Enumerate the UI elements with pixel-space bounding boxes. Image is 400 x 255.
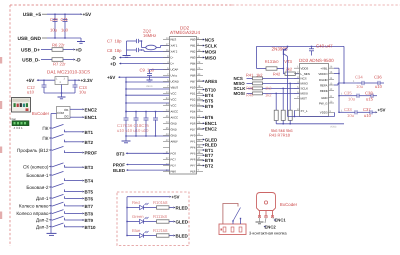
svg-text:OG: OG (64, 115, 69, 119)
wire RLED (mcu) (197, 144, 204, 146)
wire USB_GND (47, 37, 81, 38)
svg-text:BT5: BT5 (205, 99, 214, 104)
svg-text:R121k8: R121k8 (153, 228, 168, 233)
svg-text:PB5: PB5 (190, 68, 196, 72)
node SCLK (mcu) (203, 43, 218, 48)
svg-text:C34: C34 (355, 75, 363, 80)
svg-text:R38: R38 (246, 86, 254, 91)
node +D (mcu) (110, 62, 170, 67)
svg-text:PE6: PE6 (190, 170, 196, 174)
svg-text:VCC: VCC (171, 104, 177, 108)
svg-text:ENC2: ENC2 (205, 127, 218, 132)
crystal ZQ2 (141, 40, 170, 51)
wire BT5 (67, 191, 82, 193)
capacitor C8 label (107, 48, 122, 53)
svg-text:BT10: BT10 (85, 225, 97, 230)
node BT9 (82, 218, 93, 223)
svg-text:MOSI: MOSI (301, 92, 309, 96)
svg-text:C8: C8 (107, 48, 113, 53)
resistor R6 (52, 48, 63, 52)
svg-text:MOT: MOT (301, 97, 308, 101)
svg-text:ExCoder: ExCoder (32, 111, 50, 116)
svg-text:PD2: PD2 (190, 98, 196, 102)
node BLED (173, 233, 188, 238)
resistor pull-up 2 (281, 88, 285, 124)
sensor U2 DD3 ADNS-9500 (294, 64, 334, 117)
svg-text:SCLK: SCLK (301, 87, 309, 91)
wire GLED (mcu) (197, 139, 204, 141)
regulator DA1 label (47, 70, 90, 75)
resistor R6 22r label (52, 43, 65, 48)
switch BT8 (50, 210, 67, 214)
svg-text:BT9: BT9 (205, 104, 214, 109)
svg-text:REFA: REFA (320, 83, 328, 87)
wire BT1 (mcu) (197, 149, 204, 151)
svg-text:Колесо влево: Колесо влево (19, 204, 49, 209)
svg-text:Дап-3: Дап-3 (36, 224, 49, 229)
wire LED +5V rail (127, 197, 169, 236)
node USB_D- (22, 58, 52, 64)
svg-text:C38: C38 (365, 90, 373, 95)
svg-text:UCAP: UCAP (171, 68, 179, 72)
LED Green (126, 214, 156, 224)
capacitor C40 (309, 43, 333, 55)
wire BT5 (mcu) (197, 100, 204, 102)
svg-text:NCS: NCS (301, 77, 307, 81)
transistor VT3 label (272, 46, 293, 64)
svg-text:10u: 10u (347, 113, 355, 118)
wire BT9 (mcu) (197, 105, 204, 107)
node PROF (mcu) (113, 163, 170, 168)
node SCLK (sensor) (234, 86, 253, 91)
svg-text:R42: R42 (273, 72, 281, 77)
switch BT9 label (36, 218, 51, 223)
svg-text:-D: -D (76, 58, 82, 64)
svg-text:R131k0: R131k0 (265, 59, 280, 64)
switch BT6 label (36, 196, 51, 201)
svg-text:BT2: BT2 (205, 163, 214, 168)
switch BT6 (50, 194, 67, 198)
svg-text:R7 22r: R7 22r (53, 62, 66, 67)
wire ENC1 (mcu) (197, 122, 204, 124)
node BT2 (mcu) (203, 163, 214, 168)
wire encoder COM to bus (51, 114, 57, 129)
svg-text:PD7: PD7 (171, 164, 177, 168)
svg-text:ATMEGA32U4: ATMEGA32U4 (170, 30, 200, 35)
resistor pull-up 1 (274, 93, 278, 124)
switch BT10 label (36, 224, 51, 229)
svg-text:1k2: 1k2 (265, 93, 272, 98)
node RLED (173, 205, 188, 210)
svg-text:AVCC: AVCC (171, 110, 179, 114)
svg-text:+5V: +5V (378, 108, 386, 113)
resistor R7 (52, 58, 63, 62)
node BLED (mcu) (113, 168, 169, 173)
svg-text:+5V: +5V (107, 75, 116, 80)
wire MOSI (mcu) (197, 51, 204, 53)
node GLED (173, 219, 188, 224)
svg-text:R41: R41 (246, 72, 254, 77)
node -D (mcu) (111, 56, 170, 61)
wire BT6 (mcu) (197, 116, 204, 118)
node BT3 (mcu) (116, 151, 169, 156)
ExCoder block label (32, 111, 50, 116)
svg-text:GND: GND (321, 96, 327, 100)
svg-text:BT4: BT4 (85, 179, 94, 184)
svg-text:1k2: 1k2 (265, 86, 272, 91)
wire BT2 (mcu) (197, 165, 204, 167)
svg-text:UGND: UGND (171, 80, 179, 84)
node BT6 (82, 196, 93, 201)
capacitor C10 (50, 14, 58, 38)
svg-text:NCS: NCS (205, 37, 215, 42)
capacitor C35 (344, 90, 367, 101)
svg-text:ENC1: ENC1 (275, 218, 287, 223)
node ENC1 (mcu) (203, 121, 218, 126)
wire ARES (mcu) (197, 80, 204, 82)
capacitor C37 (363, 107, 375, 118)
node +5V (80, 12, 92, 18)
svg-text:PD5: PD5 (190, 116, 196, 120)
node BT1 (82, 130, 93, 135)
wire ENC2 (70, 108, 82, 110)
svg-text:VDDIO: VDDIO (318, 72, 328, 76)
svg-text:XAT2: XAT2 (171, 50, 178, 54)
svg-text:ENC2: ENC2 (265, 224, 277, 229)
node BT4 (mcu) (203, 93, 214, 98)
svg-text:GND: GND (171, 122, 177, 126)
capacitor C7 (127, 39, 142, 43)
wire switch common bus (50, 128, 52, 233)
node BT10 (mcu) (203, 87, 217, 92)
EnCoder label (280, 202, 298, 207)
svg-text:PB4: PB4 (190, 62, 196, 66)
svg-text:C37: C37 (363, 107, 371, 112)
EnCoder symbol (257, 193, 276, 218)
node MISO (sensor) (234, 81, 253, 86)
svg-text:Боковая-1: Боковая-1 (26, 173, 49, 178)
switch BT1 label (42, 126, 51, 131)
ground (switch bus) (47, 233, 57, 235)
svg-text:BLED: BLED (176, 233, 189, 238)
ground (USB) (77, 38, 85, 43)
svg-text:1k2: 1k2 (256, 72, 263, 77)
node ENC1 (encoder) (273, 218, 287, 223)
svg-text:+D: +D (110, 62, 117, 67)
capacitor C12 (27, 80, 47, 94)
wire sensor +5V rail (257, 46, 345, 83)
svg-text:PF7: PF7 (190, 164, 196, 168)
node BT8 (82, 211, 93, 216)
svg-text:PB3: PB3 (190, 56, 196, 60)
svg-text:PC7: PC7 (171, 158, 177, 162)
node -D (73, 58, 81, 64)
svg-text:PD4: PD4 (190, 110, 196, 114)
LED group box (117, 192, 189, 246)
svg-text:C10: C10 (50, 17, 58, 22)
svg-text:L_NEN: L_NEN (301, 72, 310, 76)
switch BT3 (50, 163, 67, 167)
svg-text:C11: C11 (61, 17, 69, 22)
ground (encoder) (256, 218, 264, 224)
svg-text:Изм: Изм (11, 117, 16, 121)
ground (mcu aref) (119, 140, 121, 142)
resistor R40 label (246, 93, 272, 98)
svg-text:ARES: ARES (205, 79, 218, 84)
node ENC2 (block) (82, 107, 97, 112)
svg-text:BT8: BT8 (85, 211, 94, 216)
wire mcu +5V bus (119, 77, 170, 112)
resistor pull-up 3 (288, 83, 292, 124)
photo pcb preview (11, 117, 30, 130)
svg-text:+3.3V: +3.3V (81, 78, 94, 83)
svg-text:USB_GND: USB_GND (18, 36, 42, 42)
svg-text:RLED: RLED (176, 205, 189, 210)
svg-text:u10 u10 u10 u10: u10 u10 u10 u10 (117, 128, 149, 133)
svg-text:PD1: PD1 (190, 92, 196, 96)
svg-text:PD7: PD7 (190, 128, 196, 132)
svg-text:VBUS: VBUS (171, 86, 179, 90)
node MOSI (mcu) (203, 49, 217, 54)
ground (DA1) (58, 93, 66, 99)
node RLED (mcu) (203, 143, 218, 148)
svg-text:Дап-2: Дап-2 (36, 218, 49, 223)
capacitor C8 (127, 48, 142, 52)
resistor R42 (273, 66, 300, 76)
photo encoder preview (12, 98, 31, 113)
wire VT3 collector (287, 56, 289, 116)
node +3.3V (78, 78, 93, 83)
svg-text:Red: Red (132, 200, 140, 205)
wire BT6 (67, 197, 82, 199)
node PROF (82, 151, 97, 156)
svg-text:C35: C35 (344, 90, 352, 95)
sensor DD3 label (299, 58, 334, 63)
node +D (73, 48, 82, 54)
svg-text:ENC1: ENC1 (85, 115, 98, 120)
capacitor C13 (73, 80, 88, 94)
capacitor C36 (374, 75, 384, 89)
svg-text:SCLK: SCLK (205, 43, 218, 48)
svg-text:10u: 10u (348, 97, 356, 102)
node +5V (mcu) (107, 75, 120, 80)
switch BT2 label (42, 136, 51, 141)
svg-text:DD3 ADNS-9500: DD3 ADNS-9500 (299, 58, 334, 63)
resistor R12 (153, 228, 169, 237)
node BT2 (82, 140, 93, 145)
svg-text:1u0: 1u0 (61, 28, 69, 33)
wire DA1 input (37, 80, 55, 81)
LED Red (126, 200, 156, 210)
wire ENC2 (mcu) (197, 128, 204, 130)
svg-text:u10: u10 (375, 84, 383, 89)
svg-text:C7: C7 (107, 39, 113, 44)
node BT4 (82, 179, 93, 184)
svg-text:4 3 2 1: 4 3 2 1 (14, 126, 24, 130)
svg-text:BT1: BT1 (85, 130, 94, 135)
svg-text:R43 R7R18: R43 R7R18 (269, 132, 291, 137)
svg-text:u10: u10 (364, 113, 372, 118)
wire BLED (169, 235, 173, 237)
svg-text:OB: OB (64, 108, 68, 112)
svg-text:C40 u47: C40 u47 (316, 43, 333, 48)
wire BT10 (67, 226, 82, 228)
svg-text:VBUS: VBUS (146, 85, 153, 88)
wire GLED (169, 221, 173, 223)
svg-text:Колесо вправо: Колесо вправо (16, 211, 49, 216)
svg-text:GLED: GLED (205, 137, 218, 142)
wire cap rowB (339, 93, 346, 96)
svg-text:DGND: DGND (319, 78, 328, 82)
svg-text:ПК: ПК (42, 126, 48, 131)
resistor MOSI series (253, 92, 300, 95)
svg-text:+5V: +5V (172, 195, 180, 200)
svg-text:MOSI: MOSI (234, 91, 245, 96)
switch BT1 (50, 124, 67, 131)
svg-text:Green: Green (132, 214, 144, 219)
switch BT9 (50, 216, 67, 220)
wire BT8 (67, 212, 82, 214)
svg-text:3-контактная кнопка: 3-контактная кнопка (249, 230, 287, 235)
svg-text:PW_G: PW_G (319, 101, 328, 105)
ground (mcu caps) (122, 141, 131, 143)
node NCS (sensor) (234, 76, 253, 81)
capacitor C11 (61, 14, 69, 38)
svg-text:R111k8: R111k8 (153, 214, 167, 219)
node USB_D+ (21, 48, 52, 54)
switch PROF label (17, 148, 51, 153)
svg-text:USB_+5: USB_+5 (23, 12, 42, 18)
node ENC1 (block) (82, 115, 97, 120)
ground (crystal) (123, 41, 131, 57)
svg-text:AVCC: AVCC (171, 116, 179, 120)
svg-text:PROF: PROF (113, 163, 126, 168)
resistor SCLK series (253, 87, 300, 90)
svg-text:PD0: PD0 (190, 86, 196, 90)
mcu DD2 label (170, 26, 200, 36)
svg-text:BT4: BT4 (205, 93, 214, 98)
svg-text:MISO: MISO (205, 55, 217, 60)
svg-text:BT6: BT6 (85, 196, 94, 201)
wire MISO (mcu) (197, 57, 204, 59)
svg-text:RES: RES (171, 38, 177, 42)
crystal ZQ2 label (143, 29, 156, 38)
wire NCS (mcu) (197, 39, 204, 41)
svg-text:PF6: PF6 (190, 158, 196, 162)
svg-text:BT3: BT3 (116, 151, 125, 156)
wire BT4 (67, 180, 82, 182)
wire BT3 (67, 166, 82, 168)
resistor R41 label (246, 72, 263, 77)
svg-text:PB7: PB7 (190, 80, 196, 84)
resistor R13 (257, 46, 284, 70)
svg-text:REFB: REFB (320, 89, 328, 93)
svg-text:Профиль (В12: Профиль (В12 (17, 148, 49, 153)
svg-text:PC6: PC6 (171, 152, 177, 156)
svg-text:VDD5: VDD5 (301, 67, 309, 71)
node ENC2 (encoder) (264, 218, 277, 230)
svg-text:PF5: PF5 (190, 152, 196, 156)
wire BT8 (mcu) (197, 159, 204, 161)
wire BT7 (mcu) (197, 154, 204, 156)
wire BT4 (mcu) (197, 94, 204, 96)
svg-text:AREF: AREF (171, 140, 179, 144)
svg-text:R6 22r: R6 22r (52, 43, 65, 48)
svg-text:PB0: PB0 (190, 38, 196, 42)
resistor R38 label (246, 86, 272, 91)
wire BT1 (67, 131, 82, 133)
svg-text:PB1: PB1 (190, 44, 196, 48)
transistor VT3 (283, 46, 288, 73)
svg-text:+5V: +5V (83, 12, 92, 18)
node MISO (mcu) (203, 55, 217, 60)
svg-text:MISO: MISO (301, 82, 309, 86)
svg-text:C9: C9 (140, 67, 146, 72)
wire BT7 (67, 205, 82, 207)
svg-text:-D: -D (111, 56, 117, 61)
svg-text:10u: 10u (79, 90, 87, 95)
node MOSI (sensor) (234, 91, 253, 96)
node BT7 (mcu) (203, 153, 214, 158)
svg-text:16MHz: 16MHz (143, 33, 156, 38)
svg-text:2k2: 2k2 (286, 66, 293, 71)
capacitor C9 (140, 67, 170, 81)
svg-text:MOSI: MOSI (205, 49, 217, 54)
svg-text:R101k8: R101k8 (153, 200, 168, 205)
node +5V (LED) (169, 195, 179, 200)
svg-text:BT6: BT6 (205, 115, 214, 120)
node BT9 (mcu) (203, 104, 214, 109)
capacitor C38 (365, 90, 377, 101)
svg-text:BT2: BT2 (85, 140, 94, 145)
svg-text:PROF: PROF (85, 151, 98, 156)
svg-text:+5V: +5V (26, 78, 35, 83)
wire PROF (67, 152, 82, 154)
node BT3 (82, 165, 93, 170)
switch PROF (50, 146, 67, 152)
svg-text:D+: D+ (171, 62, 175, 66)
resistor MISO series (253, 82, 300, 85)
wire BT10 (mcu) (197, 89, 204, 91)
resistor R7 22r label (53, 62, 66, 67)
svg-text:PB2: PB2 (190, 50, 196, 54)
svg-text:C33: C33 (344, 107, 352, 112)
switch BT2 (50, 134, 67, 141)
switch BT7 label (19, 204, 51, 209)
svg-text:GLED: GLED (176, 219, 189, 224)
node ARES (mcu) (203, 79, 218, 84)
svg-text:+D: +D (76, 48, 83, 54)
node USB_GND (18, 36, 47, 42)
svg-text:ENC1: ENC1 (205, 121, 218, 126)
encoder block EC1 (57, 107, 71, 119)
svg-text:VT3: VT3 (284, 59, 292, 64)
node BT7 (82, 204, 93, 209)
wire DA1 gnd (44, 85, 75, 94)
svg-text:XY_L: XY_L (301, 109, 308, 113)
wire pull-up common (276, 123, 344, 128)
button symbol (219, 224, 246, 235)
switch BT8 label (16, 211, 51, 216)
switch BT5 label (26, 185, 51, 190)
node +5V (sensor caps) (375, 108, 385, 114)
svg-text:ENC2: ENC2 (85, 107, 98, 112)
wire SCLK (mcu) (197, 45, 204, 47)
regulator DA1 (55, 77, 68, 85)
svg-text:GND: GND (171, 128, 177, 132)
svg-text:BT10: BT10 (205, 87, 217, 92)
svg-text:BT5: BT5 (85, 190, 94, 195)
